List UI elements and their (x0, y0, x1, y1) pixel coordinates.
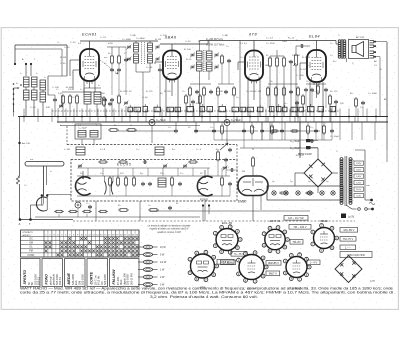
capacitor (158, 68, 162, 72)
svg-text:R₃₀: R₃₀ (118, 205, 121, 207)
coil (148, 43, 153, 52)
svg-text:ant.: ant. (30, 158, 34, 161)
svg-text:125V: 125V (356, 183, 362, 185)
resistor (302, 94, 305, 106)
tube 6T8 envelope (245, 51, 263, 81)
svg-text:EM80: EM80 (238, 200, 247, 204)
resistor (126, 129, 137, 132)
svg-text:C₂₁: C₂₁ (374, 65, 377, 67)
svg-text:Ant. FM: Ant. FM (22, 142, 30, 145)
speaker terminals lower (370, 51, 374, 58)
svg-text:C₅₆ 50µF: C₅₆ 50µF (290, 147, 300, 150)
wire tube4 leads (300, 62, 307, 64)
capacitor (168, 206, 172, 210)
svg-text:C₆₇ 0,1: C₆₇ 0,1 (222, 167, 230, 169)
svg-text:C₉ 100: C₉ 100 (160, 35, 167, 37)
svg-text:1 W: 1 W (160, 269, 165, 272)
capacitor (289, 60, 293, 64)
svg-text:220V: 220V (356, 163, 362, 165)
tube base diagram EM 80 (283, 253, 311, 282)
capacitor (124, 58, 128, 62)
resistor (276, 56, 279, 68)
trimmer capacitor (214, 65, 219, 70)
switch mains (358, 208, 361, 211)
svg-text:P₁ 0,5M: P₁ 0,5M (292, 55, 300, 57)
wire FM exits (95, 201, 97, 221)
legend resistor 5 W (138, 253, 165, 257)
svg-text:6BA6: 6BA6 (165, 35, 177, 40)
svg-text:10 W: 10 W (160, 246, 166, 249)
svg-text:C₆₆: C₆₆ (100, 173, 103, 175)
svg-text:1/2 W: 1/2 W (160, 261, 167, 264)
FM unit dashed box (71, 160, 237, 202)
svg-text:1– 4 V: 1– 4 V (310, 260, 318, 264)
wire (19, 184, 21, 220)
wire transformer drop (386, 122, 388, 150)
wire FM internal (77, 175, 230, 177)
capacitor (228, 148, 232, 152)
svg-text:110V: 110V (356, 189, 361, 191)
resistor (317, 84, 320, 95)
svg-text:C₆₈: C₆₈ (180, 173, 183, 175)
arrow tuning gang (100, 60, 118, 74)
svg-text:TM–8V: TM–8V (292, 240, 301, 244)
capacitor (324, 88, 328, 92)
wire bridge connections (317, 148, 319, 159)
wire filter caps (311, 140, 319, 142)
svg-text:C₉ 30: C₉ 30 (126, 91, 132, 93)
resistor (323, 124, 326, 135)
svg-text:C₂ 10: C₂ 10 (64, 47, 70, 49)
resistor (98, 161, 108, 163)
terminal antenna (25, 63, 27, 65)
wire bottom rail (20, 219, 73, 221)
dial lamp (320, 191, 324, 195)
dial lamp (296, 191, 300, 195)
wire (54, 95, 56, 98)
svg-text:C₅₅ 50µF: C₅₅ 50µF (290, 140, 300, 143)
wire lower links (214, 139, 332, 141)
wire tube1 top lead (89, 41, 91, 49)
svg-text:osc.: osc. (104, 57, 108, 59)
wire (43, 196, 45, 204)
capacitor (227, 59, 231, 63)
band block SPENTO (21, 259, 41, 287)
svg-text:140V: 140V (356, 176, 362, 178)
wire antenna stem (43, 166, 45, 196)
svg-text:rispetto al telaio con voltmet: rispetto al telaio con voltmetro da Ω/V (150, 228, 189, 231)
legend resistor 10 W (138, 245, 166, 249)
svg-text:F₀ FM 10,7 Mc/s: F₀ FM 10,7 Mc/s (206, 43, 225, 46)
svg-text:C₂₀: C₂₀ (330, 43, 333, 45)
resistor (188, 161, 198, 163)
svg-text:R₅ 27k: R₅ 27k (120, 91, 128, 93)
resistor (125, 176, 128, 187)
svg-text:R₁₄: R₁₄ (284, 103, 287, 105)
band block CORTE (87, 259, 108, 287)
svg-text:MEDIE: MEDIE (67, 273, 71, 285)
trimmer capacitor (223, 166, 228, 171)
wire B+ bus (18, 116, 388, 118)
svg-text:1MΩ: 1MΩ (282, 41, 287, 43)
coil L7 choke (17, 176, 20, 184)
wire IFT2 (199, 41, 201, 52)
capacitor (314, 129, 318, 133)
svg-text:C₁: C₁ (57, 42, 60, 44)
svg-text:C₄₅ 0,1: C₄₅ 0,1 (266, 38, 274, 40)
callout EL84 b (266, 271, 280, 276)
resistor (117, 176, 120, 187)
trimmer capacitor (155, 57, 160, 62)
svg-text:R₅: R₅ (198, 41, 201, 43)
resistor (329, 94, 332, 106)
svg-text:L₉ FM: L₉ FM (64, 149, 70, 151)
node antenna FM (18, 142, 20, 144)
svg-text:S₁: S₁ (16, 83, 18, 85)
terminal A (19, 218, 22, 221)
coil (76, 147, 85, 155)
terminal aerial FM (370, 199, 373, 202)
svg-text:CORTE: CORTE (90, 271, 94, 284)
electrolytic capacitor (149, 120, 155, 126)
svg-text:R₁₂: R₁₂ (270, 81, 273, 83)
svg-text:CONTATTI: CONTATTI (22, 231, 33, 234)
wire to bus (25, 100, 27, 117)
svg-text:FM: FM (29, 250, 32, 253)
capacitor (242, 129, 246, 133)
coil (148, 54, 153, 63)
callout ECH81 voltage (289, 225, 311, 230)
svg-text:R₇: R₇ (266, 55, 269, 57)
coil (24, 90, 30, 100)
svg-text:R₄ 100: R₄ 100 (184, 49, 192, 51)
tube ECH81 envelope (80, 49, 99, 81)
svg-text:R₃: R₃ (108, 53, 111, 55)
svg-text:R₂ 2M: R₂ 2M (60, 57, 66, 59)
svg-text:C₂₂ 5000: C₂₂ 5000 (368, 93, 378, 95)
table X marks (45, 237, 139, 256)
svg-text:300 Ω FM: 300 Ω FM (130, 274, 134, 285)
speaker terminals upper (370, 41, 374, 48)
wire EM80 (252, 168, 254, 176)
wire tube1 bottom leads (83, 80, 85, 92)
svg-text:C₁₅: C₁₅ (240, 57, 243, 59)
wire tube3 leads (238, 61, 245, 63)
svg-text:C₃ 0,1: C₃ 0,1 (100, 37, 107, 39)
coil (90, 131, 98, 138)
svg-text:6,3V: 6,3V (356, 196, 361, 198)
svg-text:5M: 5M (242, 171, 245, 173)
svg-text:T₁ MF: T₁ MF (130, 35, 137, 37)
wire bottom rail dashed (73, 220, 355, 222)
resistor (283, 56, 286, 68)
svg-text:R₁₇ 470: R₁₇ 470 (312, 91, 320, 93)
transformer winding (338, 40, 341, 58)
FM unit dashed boundary top (67, 144, 237, 146)
capacitor C55 symbol (306, 139, 311, 142)
svg-text:Lp 5V: Lp 5V (348, 216, 355, 219)
coil (84, 92, 91, 104)
callout 6BA6 a (340, 228, 358, 233)
coil (207, 51, 213, 60)
table rows (21, 240, 140, 242)
capacitor (310, 88, 314, 92)
voltage tap terminals (354, 161, 364, 165)
transformer winding (340, 158, 343, 205)
svg-text:OM: OM (29, 242, 33, 245)
svg-text:C₁₆ 200: C₁₆ 200 (246, 91, 254, 93)
svg-text:FM-UKW: FM-UKW (112, 269, 116, 285)
svg-text:L₈: L₈ (96, 125, 98, 127)
wire grid (61, 95, 63, 107)
capacitor (228, 182, 232, 186)
svg-text:R₁₆: R₁₆ (333, 61, 336, 63)
resistor (203, 86, 206, 97)
svg-text:4700: 4700 (108, 43, 114, 45)
svg-text:R₂₅: R₂₅ (172, 149, 175, 151)
wire tube1 grid leads (70, 59, 80, 61)
svg-text:C₁₇: C₁₇ (236, 97, 239, 99)
callout EL84 a (266, 261, 281, 266)
more value labels (16, 35, 387, 109)
svg-text:R₁₁ 1M: R₁₁ 1M (216, 91, 223, 93)
svg-text:L₃: L₃ (44, 77, 46, 79)
resistor (251, 124, 254, 135)
trimmer capacitor (59, 104, 64, 109)
junction dots on bus (23, 116, 377, 118)
rectifier bridge B2 (335, 256, 362, 283)
svg-text:L₅: L₅ (80, 89, 82, 91)
svg-text:C₇⁵: C₇⁵ (24, 185, 27, 187)
svg-text:C₄₁ 4700: C₄₁ 4700 (266, 43, 275, 45)
coil (94, 92, 101, 104)
wire (346, 58, 348, 62)
callout ECH81 voltage 2 (290, 240, 303, 245)
svg-text:C₅₈: C₅₈ (210, 127, 213, 129)
tube base diagram ECH 81 (262, 226, 289, 254)
svg-text:R₁ 56k: R₁ 56k (66, 87, 73, 89)
svg-text:L₇: L₇ (60, 125, 62, 127)
wire tube3 top lead (253, 41, 255, 51)
svg-text:C₆₄ 50µF: C₆₄ 50µF (330, 136, 340, 138)
wire (30, 205, 32, 220)
svg-text:C₁₀ 80: C₁₀ 80 (146, 67, 153, 69)
svg-text:A: A (19, 222, 21, 226)
resistor (355, 97, 358, 108)
coil (155, 147, 164, 155)
capacitor (103, 98, 107, 102)
callout B250 C100 / B30 (340, 252, 372, 258)
wire osc links (62, 105, 64, 117)
wire risers across chassis (24, 109, 376, 123)
capacitor (224, 90, 228, 94)
capacitor (300, 44, 304, 48)
coil (197, 62, 203, 71)
svg-text:C₁₀: C₁₀ (182, 91, 185, 93)
svg-text:5 W: 5 W (160, 254, 165, 257)
dial lamp strip (267, 186, 343, 200)
table columns (47, 230, 49, 257)
coil (24, 77, 30, 87)
tube base diagram 6BA6 (311, 224, 339, 253)
ferrite rod antenna (25, 162, 64, 167)
svg-text:C₂₃: C₂₃ (360, 107, 363, 109)
resistor R3 (76, 94, 79, 105)
capacitor (143, 160, 147, 164)
resistor (118, 209, 129, 212)
transformer winding (343, 40, 346, 58)
svg-text:T₃: T₃ (338, 35, 340, 37)
capacitor (117, 68, 121, 72)
wire chassis bus (57, 121, 388, 123)
dial lamp (272, 191, 276, 195)
capacitor (260, 129, 264, 133)
resistor (269, 56, 272, 68)
coil (40, 80, 46, 90)
svg-text:C₁₁ 50: C₁₁ 50 (196, 65, 203, 67)
callout ECL80 (231, 252, 247, 257)
electrolytic capacitor (224, 120, 230, 126)
capacitor (295, 101, 299, 105)
wire lower left link (60, 125, 200, 127)
resistor (297, 86, 300, 97)
transformer winding (349, 158, 352, 205)
switch contact table frame (21, 230, 140, 257)
svg-text:L₆: L₆ (50, 171, 52, 173)
svg-text:160V: 160V (356, 170, 362, 172)
resistor (233, 86, 236, 97)
svg-text:R₂₀: R₂₀ (114, 125, 117, 127)
capacitor (310, 139, 314, 143)
tube base diagram EL 84 (237, 251, 269, 283)
svg-text:T₂ MF: T₂ MF (222, 35, 229, 37)
small tube V6 triode (36, 197, 47, 211)
svg-text:C₁₉: C₁₉ (330, 55, 333, 57)
resistor (109, 176, 112, 187)
wire riser (236, 117, 238, 123)
band block FONO (42, 259, 63, 287)
svg-text:R₁₃ 1M: R₁₃ 1M (254, 91, 261, 93)
band block MEDIE (65, 259, 86, 287)
bus component row (128, 104, 336, 112)
coil (158, 178, 166, 187)
tube EL84 electrodes (310, 51, 323, 85)
svg-text:TM–75 V: TM–75 V (343, 237, 354, 241)
resistor (217, 86, 220, 97)
svg-text:L₁: L₁ (20, 73, 22, 75)
trimmer capacitor (124, 101, 129, 106)
capacitor (209, 90, 213, 94)
tube EL84 envelope (307, 50, 326, 82)
svg-text:C₅₀ 6800: C₅₀ 6800 (122, 39, 132, 41)
svg-text:R₆ 1k: R₆ 1k (186, 59, 192, 61)
svg-text:5000: 5000 (100, 93, 106, 95)
coil (207, 62, 213, 71)
svg-text:FONO: FONO (45, 274, 49, 285)
capacitor (53, 98, 57, 102)
wire IF riser (239, 41, 241, 112)
tube base diagram ECL 80 (213, 225, 242, 255)
capacitor (141, 182, 145, 186)
svg-text:1 – –: 1 – – (345, 245, 351, 249)
table header (21, 236, 140, 238)
capacitor (289, 90, 293, 94)
resistor (82, 210, 92, 212)
wire tube4 top lead (316, 41, 318, 51)
legend resistor 1 W (138, 268, 165, 272)
svg-text:525 1605: 525 1605 (126, 274, 130, 285)
wire speaker drop (386, 42, 388, 122)
svg-text:quelle in corsivo in FM: quelle in corsivo in FM (157, 232, 180, 234)
svg-text:160 51: 160 51 (58, 277, 62, 285)
resistor (148, 209, 159, 212)
legend resistor 2 W (138, 275, 165, 279)
resistor (290, 130, 299, 132)
tube ECH81 electrodes (83, 50, 96, 84)
resistor (279, 192, 288, 194)
tube V5 ECC85 section a (75, 177, 90, 195)
wire mains (346, 205, 352, 209)
svg-text:R₁₇ 170: R₁₇ 170 (330, 91, 338, 93)
left switch contacts column (13, 83, 15, 105)
resistor (271, 124, 274, 135)
svg-text:9M/185 V: 9M/185 V (268, 261, 279, 265)
resistor (108, 129, 119, 132)
svg-text:9M/7 V: 9M/7 V (269, 271, 277, 275)
legend resistor 3 W (138, 283, 165, 287)
wire AVC dashed bus (52, 110, 340, 112)
svg-text:R₂₂: R₂₂ (252, 127, 255, 129)
resistor R2 (69, 94, 72, 105)
capacitor (148, 182, 152, 186)
wire strip to bridge (317, 187, 319, 193)
svg-text:R₈ 470k: R₈ 470k (300, 69, 309, 71)
resistor (307, 124, 310, 135)
resistor (118, 54, 121, 65)
resistor (267, 86, 270, 97)
dial lamp (308, 191, 312, 195)
svg-text:T: T (29, 222, 31, 226)
svg-text:C₅₁ 6800: C₅₁ 6800 (136, 38, 145, 40)
svg-text:C₄ 100: C₄ 100 (52, 87, 60, 89)
svg-text:C₆₃: C₆₃ (136, 149, 139, 151)
wire HT (299, 122, 301, 158)
wire right verticals (262, 122, 375, 140)
capacitor C56 symbol (306, 146, 311, 149)
tube EM80 envelope (238, 176, 268, 196)
callout EL84 left (221, 260, 236, 265)
svg-text:C₄₄ 200: C₄₄ 200 (296, 75, 304, 77)
capacitor (212, 129, 216, 133)
svg-text:C₁₁: C₁₁ (196, 57, 199, 59)
ratio detector box (75, 124, 101, 139)
resistor (270, 130, 279, 132)
svg-text:FONO: FONO (28, 255, 35, 257)
capacitor (110, 98, 114, 102)
tube V5 ECC85 section b (197, 176, 212, 196)
wire segment lower right (195, 130, 258, 132)
wire (185, 105, 187, 117)
wire IFT1 (135, 41, 137, 43)
svg-text:100–85 V: 100–85 V (343, 228, 354, 232)
resistor (221, 176, 224, 187)
switch S1 contacts (17, 87, 19, 89)
label mains (369, 203, 375, 205)
svg-text:C₆₂ 8: C₆₂ 8 (100, 149, 106, 151)
svg-text:TL–75 V: TL–75 V (234, 252, 244, 256)
coil (78, 131, 86, 138)
resistor (199, 94, 202, 105)
